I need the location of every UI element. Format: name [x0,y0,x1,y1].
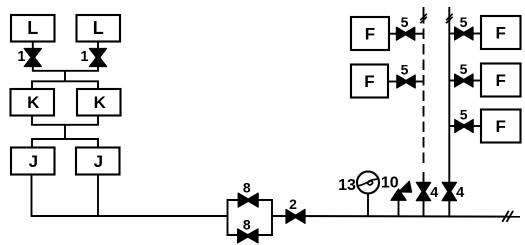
wire D to J1 [31,139,33,148]
svg-text:L: L [93,18,104,38]
wire valve 4b to main line [448,200,450,216]
box K2 [77,89,121,116]
wire header D [31,138,99,140]
svg-text:8: 8 [243,179,251,195]
wire center drop C-D [64,125,66,139]
valve 4b [442,182,456,200]
svg-text:F: F [496,24,506,43]
box F1 [351,17,389,50]
wire angle valve to main line [398,200,400,216]
wire B to K2 [97,81,99,89]
box F3 [481,16,521,49]
wire header C [31,124,99,126]
svg-text:5: 5 [460,14,468,30]
box J1 [11,148,55,175]
box L2 [77,15,121,42]
wire valve 5e to F5 [473,125,481,127]
svg-text:5: 5 [460,107,468,123]
svg-text:1: 1 [80,49,88,65]
svg-text:4: 4 [456,185,464,201]
wire B to K1 [31,81,33,89]
svg-text:K: K [94,93,107,112]
wire solid riser to valve 5c [449,33,455,35]
box F5 [481,110,521,143]
valve 4a [416,182,430,200]
svg-text:J: J [94,152,103,171]
box J2 [76,148,120,175]
bypass loop right riser [271,199,273,236]
valve 8b [238,229,258,243]
break mark on main line (right end) [502,211,513,222]
svg-text:L: L [27,18,38,38]
wire J1 to main line [31,175,33,217]
wire valve 5b to dashed riser [415,81,424,83]
wire L2 to valve 1b [97,42,99,51]
wire header A [32,70,99,72]
gauge 13 [357,172,379,194]
valve 5a [396,27,414,40]
svg-text:F: F [496,117,506,136]
svg-text:F: F [365,25,375,44]
svg-text:1: 1 [17,49,25,65]
svg-text:5: 5 [401,14,409,30]
box L1 [11,15,55,42]
svg-text:4: 4 [430,185,438,201]
bypass loop bottom branch [227,234,273,236]
wire L1 to valve 1a [32,42,34,51]
wire header B [31,80,99,82]
svg-text:13: 13 [338,177,356,194]
valve 2 [286,209,305,223]
break mark on dashed riser [420,14,427,23]
bypass loop left riser [227,199,229,236]
box K1 [11,89,55,116]
wire J2 to main line [97,175,99,217]
wire K2 down [97,116,99,125]
break mark on solid riser [446,14,453,23]
wire valve 5d to F4 [472,80,481,82]
angle valve 10 [391,181,412,200]
svg-text:10: 10 [381,175,399,192]
svg-text:F: F [496,71,506,90]
valve 5e [455,120,473,133]
wire K1 down [31,116,33,125]
svg-text:F: F [364,72,374,91]
wire valve 5a to dashed riser [414,33,423,35]
svg-text:5: 5 [460,61,468,77]
wire valve 5c to F3 [472,33,481,35]
svg-text:K: K [27,93,40,112]
wire gauge to main line [367,194,369,217]
wire D to J2 [97,139,99,148]
wire main line left [31,215,228,217]
valve 5d [455,74,473,87]
wire main line right [272,215,520,218]
bypass loop top branch [227,199,273,201]
svg-text:5: 5 [401,62,409,78]
wire solid riser to valve 5e [449,125,455,127]
valve 1a [24,49,41,67]
wire valve 4a to main line [423,200,425,216]
svg-text:8: 8 [243,216,251,232]
valve 5c [455,27,473,40]
wire center drop A-B [64,71,66,82]
svg-text:2: 2 [289,196,297,212]
valve 1b [89,49,106,67]
valve 8a [238,193,258,207]
wire valve 1b down [97,65,99,71]
wire F1 to valve 5a [389,33,397,35]
solid riser (to valve 4b) [448,7,450,183]
wire valve 1a down [32,65,34,71]
dashed riser (to valve 4a) [423,7,425,183]
svg-text:J: J [29,152,38,171]
wire solid riser to valve 5d [449,80,455,82]
box F4 [481,64,521,97]
wire F2 to valve 5b [388,81,398,83]
valve 5b [397,75,415,88]
box F2 [351,65,388,98]
